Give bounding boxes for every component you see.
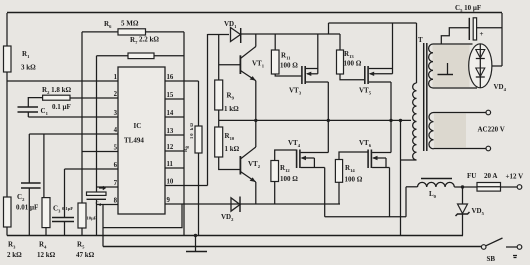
wire center rail	[219, 119, 411, 121]
svg-text:T: T	[418, 36, 423, 44]
wire R8 bottom to gnd	[198, 153, 200, 236]
wire C3 lead from pin6	[64, 169, 66, 218]
wire AC out bottom	[434, 148, 487, 150]
transformer core	[423, 43, 425, 151]
wire pin 11	[165, 167, 184, 169]
rectifier VD4	[469, 44, 492, 88]
wire +12V rail B	[103, 246, 482, 248]
wire secondary bottom lead	[433, 87, 477, 89]
inductor L0 core bar	[421, 178, 452, 180]
resistor R7	[128, 53, 154, 59]
wire pin 9 (to VD2 bus)	[165, 203, 340, 205]
wire pin16 corner to R8	[198, 81, 200, 126]
wire top drive bus (R13/VT5/primary)	[329, 22, 417, 24]
wire VD1 anode rail from pin10	[207, 34, 209, 186]
wire2 source bus	[325, 216, 406, 218]
wire secondary top lead	[433, 43, 473, 45]
wire rail from R6 left down to R5	[81, 32, 83, 203]
wire C2 bottom to gnd rail	[28, 188, 30, 236]
svg-text:TL494: TL494	[124, 137, 144, 145]
wire R7 leads	[97, 55, 129, 57]
svg-text:+: +	[480, 30, 484, 38]
svg-text:100 Ω: 100 Ω	[280, 175, 298, 183]
wire pin 7	[97, 186, 119, 188]
resistor R3	[4, 197, 12, 227]
transformer secondary lower winding	[434, 114, 466, 148]
svg-text:14: 14	[167, 110, 174, 117]
resistor R9	[218, 35, 220, 81]
svg-text:AC220 V: AC220 V	[478, 126, 505, 134]
switch SB	[481, 245, 486, 250]
wire L0 to FU	[454, 186, 477, 188]
resistor R6	[118, 29, 146, 35]
wire FU to +12V terminal	[501, 186, 518, 188]
svg-text:11: 11	[167, 161, 174, 168]
capacitor C5	[468, 18, 470, 40]
wire pin 2	[70, 97, 118, 99]
wire AC out top	[434, 112, 487, 114]
capacitor C2	[21, 182, 41, 184]
wire C2 lead from pin4 line	[28, 134, 30, 183]
svg-text:10: 10	[167, 179, 174, 186]
wire pin 5	[82, 151, 118, 153]
wire pin 4	[29, 133, 118, 135]
svg-text:10 kΩ: 10 kΩ	[189, 122, 194, 139]
wire R4 lead from pin4 line	[43, 134, 45, 198]
svg-text:9: 9	[167, 197, 171, 204]
wire pin 14	[165, 116, 184, 118]
mosfet VT4	[296, 150, 298, 169]
wire right riser to top rail	[501, 13, 503, 66]
svg-text:12: 12	[167, 144, 174, 151]
svg-text:2: 2	[114, 91, 118, 98]
resistor R8	[195, 126, 202, 153]
resistor R12	[271, 161, 279, 182]
wire R4 bottom	[45, 228, 47, 236]
wire R5 bottom	[81, 228, 83, 236]
svg-text:0.1 µF: 0.1 µF	[52, 103, 71, 111]
wire pin 13	[165, 134, 184, 136]
ground step mark inside winding	[447, 63, 449, 75]
capacitor C3	[52, 217, 74, 219]
capacitor C4 electrolytic	[87, 192, 107, 195]
mosfet VT5	[364, 66, 366, 84]
svg-text:100 Ω: 100 Ω	[280, 62, 298, 70]
wire pin 12	[165, 150, 184, 152]
wire pin 6	[65, 168, 119, 170]
wire C3 bottom	[64, 222, 66, 236]
svg-text:IC: IC	[134, 122, 142, 130]
wire C1 bottom to pin3	[27, 112, 29, 117]
capacitor C1	[18, 106, 39, 108]
resistor R14	[335, 160, 342, 183]
svg-text:0.1µF: 0.1µF	[62, 206, 73, 211]
wire pin8 drop	[102, 205, 104, 247]
inductor L0	[418, 182, 455, 187]
svg-text:13: 13	[167, 128, 174, 135]
resistor R13	[339, 34, 341, 50]
svg-text:5 MΩ: 5 MΩ	[121, 20, 139, 28]
wire primary bottom to gnd drop	[401, 159, 417, 161]
svg-text:C5 10 µF: C5 10 µF	[455, 4, 481, 13]
wire pin 15	[165, 98, 184, 100]
transformer T primary winding	[413, 83, 417, 160]
svg-text:8: 8	[114, 198, 118, 205]
svg-text:5: 5	[114, 145, 118, 152]
svg-text:20 A: 20 A	[484, 172, 497, 180]
resistor R11	[274, 34, 276, 50]
wire left rail lower	[6, 227, 8, 236]
svg-text:0.01 µF: 0.01 µF	[16, 204, 38, 212]
fuse FU	[477, 183, 501, 192]
svg-text:7: 7	[114, 180, 118, 187]
wire rail from R7 left down to C4	[96, 56, 98, 192]
svg-text:SB: SB	[487, 255, 496, 263]
diode VD5 zener	[462, 187, 464, 204]
svg-text:1 kΩ: 1 kΩ	[225, 145, 240, 153]
wire pin 3	[28, 116, 118, 118]
wire R6 leads	[82, 31, 118, 33]
terminal +12V	[517, 185, 522, 190]
resistor R2	[43, 95, 70, 100]
wire top +12V rail	[7, 12, 502, 14]
svg-text:6: 6	[114, 162, 118, 169]
resistor R5	[78, 203, 86, 228]
svg-text:15: 15	[167, 92, 174, 99]
wire right cell rail R6R7 to gnd	[183, 32, 185, 236]
svg-text:+12 V: +12 V	[506, 173, 524, 181]
wire pin 1	[7, 80, 118, 82]
svg-text:100 Ω: 100 Ω	[344, 60, 362, 68]
transistor VT2	[239, 156, 241, 175]
svg-text:3 kΩ: 3 kΩ	[21, 64, 36, 72]
resistor R4	[42, 198, 50, 228]
wire C5 right lead	[477, 27, 502, 29]
svg-text:4: 4	[114, 127, 118, 134]
svg-text:2 kΩ: 2 kΩ	[7, 251, 22, 259]
mosfet VT6	[367, 150, 369, 169]
mosfet VT3	[301, 66, 303, 84]
resistor R10	[218, 120, 220, 127]
wire left rail upper	[6, 13, 8, 46]
wire pin 8	[97, 204, 119, 206]
svg-text:2.2 kΩ: 2.2 kΩ	[139, 36, 159, 44]
svg-text:FU: FU	[467, 172, 476, 180]
svg-text:100 Ω: 100 Ω	[345, 176, 363, 184]
svg-text:47 kΩ: 47 kΩ	[76, 251, 95, 259]
wire left rail mid	[6, 72, 8, 197]
wire pin8-pin9 tie bus	[103, 204, 182, 228]
terminal AC bottom	[486, 146, 491, 151]
diode VD2	[231, 198, 240, 211]
diode VD1	[231, 28, 241, 42]
svg-text:1: 1	[114, 74, 118, 81]
svg-text:12 kΩ: 12 kΩ	[37, 251, 56, 259]
transistor VT1	[239, 55, 241, 74]
wire C4 bottom	[96, 199, 98, 235]
svg-text:R2 1.8 kΩ: R2 1.8 kΩ	[42, 86, 72, 95]
transformer secondary upper winding	[433, 45, 470, 87]
svg-text:1 kΩ: 1 kΩ	[224, 105, 239, 113]
wire pin 16	[165, 80, 199, 82]
wire primary top drop	[416, 23, 418, 83]
IC U1 TL494 box	[118, 67, 165, 214]
wire pin 10	[165, 185, 208, 187]
svg-text:16: 16	[167, 74, 174, 81]
wire ground rail A	[7, 235, 463, 237]
wire VD1 bus	[208, 34, 230, 36]
ground symbol	[194, 234, 197, 237]
terminal AC top	[486, 110, 491, 115]
wire VD4 right stub	[492, 65, 502, 67]
wire VD1 cathode to VT3 drain riser	[241, 33, 340, 35]
svg-text:3: 3	[114, 110, 118, 117]
wire C5 left staircase	[441, 28, 469, 44]
svg-text:10µF: 10µF	[87, 216, 97, 221]
resistor R1	[4, 46, 12, 72]
wire R2 left to C1	[28, 98, 42, 107]
